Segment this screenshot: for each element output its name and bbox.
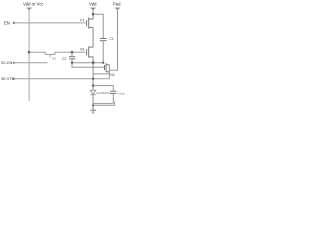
- label SC-EN: [1, 61, 13, 65]
- wire SC-EN: [13, 62, 48, 64]
- wire rail below out row: [92, 63, 94, 86]
- node dot second bottom line: [92, 104, 94, 106]
- wire N2 drain-source vertical: [108, 65, 110, 79]
- node dot C2 top: [71, 51, 74, 54]
- svg-text:Csub: Csub: [117, 91, 124, 95]
- wire Vdd2 stem: [92, 9, 94, 20]
- background: [0, 0, 126, 120]
- terminal dot SE-VTE: [13, 78, 15, 80]
- label C3: [117, 91, 124, 95]
- svg-text:SC-EN: SC-EN: [1, 61, 13, 65]
- wire C2 bottom to N2 gate: [72, 59, 104, 67]
- transistor N1: [87, 47, 94, 58]
- node dot diode top: [92, 84, 95, 87]
- svg-text:Vdd: Vdd: [89, 2, 97, 7]
- svg-text:SE-VTE: SE-VTE: [1, 77, 15, 81]
- label Vdd: [89, 2, 97, 7]
- label N3: [52, 56, 56, 60]
- wire N2 source row to rail: [93, 73, 109, 75]
- power symbol VDD2: [90, 7, 95, 9]
- node dot Vdd2: [92, 13, 95, 16]
- label Pad: [113, 2, 121, 7]
- node dot out row left: [71, 62, 73, 64]
- diode D1: [92, 86, 94, 90]
- wire bottom rail: [93, 103, 113, 105]
- transistor P1: [87, 17, 94, 28]
- label C2: [62, 57, 66, 61]
- power symbol VDD1: [27, 7, 32, 9]
- node dot out row right: [102, 62, 104, 64]
- pad terminal symbol: [115, 7, 120, 9]
- label P1: [80, 18, 84, 22]
- wire SE-VTE: [13, 78, 109, 80]
- wire diode to bottom rail: [92, 95, 94, 103]
- svg-text:N3: N3: [52, 56, 56, 60]
- label SE-VTE: [1, 77, 15, 81]
- wire output row: [72, 62, 103, 64]
- node dot SE-VTE on rail: [92, 78, 94, 80]
- svg-text:N1: N1: [80, 48, 84, 52]
- label EN: [4, 21, 10, 26]
- wire EN to P1 gate: [13, 22, 86, 24]
- svg-text:P1: P1: [80, 18, 84, 22]
- capacitor C2: [71, 52, 73, 56]
- svg-text:Pad: Pad: [113, 2, 121, 7]
- svg-text:N2: N2: [110, 73, 114, 77]
- node dot out row mid: [92, 61, 95, 64]
- wire Vdd node to C1 top: [93, 14, 103, 38]
- wire output rail P1-N1: [92, 28, 94, 47]
- ground VSS: [90, 104, 96, 114]
- svg-text:EN: EN: [4, 21, 10, 26]
- wire branch to C3: [93, 86, 113, 91]
- label C1: [109, 37, 113, 41]
- label D1: [96, 91, 110, 95]
- capacitor C1: [100, 39, 107, 41]
- svg-text:C2: C2: [62, 57, 66, 61]
- label N1: [80, 48, 84, 52]
- terminal dot SC-EN: [13, 62, 15, 64]
- terminal dot EN: [13, 22, 15, 24]
- wire C3 bottom: [112, 94, 114, 104]
- wire pad vertical: [109, 9, 117, 71]
- svg-text:GGNMOS: GGNMOS: [96, 91, 110, 95]
- fuse gate stub: [49, 54, 51, 57]
- wire Vdd1 vertical rail: [28, 9, 30, 102]
- wire second bottom line: [93, 102, 115, 106]
- svg-text:Vdd or Vcc: Vdd or Vcc: [23, 2, 43, 7]
- label Vdd or Vcc: [23, 2, 43, 7]
- wire C1 bottom to out row: [102, 41, 104, 63]
- wire N1 source to out row: [92, 57, 94, 63]
- capacitor C3: [110, 91, 116, 93]
- transistor N2: [105, 63, 110, 72]
- wire gate feed with fuse dip: [29, 52, 86, 54]
- svg-text:C1: C1: [109, 37, 113, 41]
- node dot gate feed on Vdd rail: [28, 51, 31, 54]
- label N2: [110, 73, 114, 77]
